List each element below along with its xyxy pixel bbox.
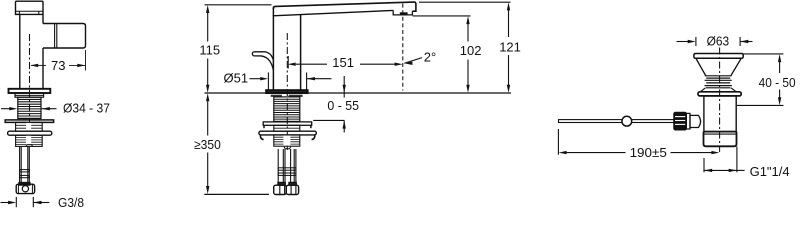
svg-text:≥350: ≥350: [194, 137, 221, 152]
funnel flare to collar: [700, 88, 705, 92]
svg-text:115: 115: [199, 42, 220, 57]
dimension 0 - 55: [343, 76, 345, 98]
mounting surface line: [205, 92, 267, 94]
drain collar: [698, 92, 741, 96]
svg-text:0 - 55: 0 - 55: [327, 98, 359, 113]
thread section between washers: [16, 122, 43, 131]
rod collar at body: [686, 113, 690, 129]
spout stub (side view, pointing toward viewer): [43, 24, 86, 49]
rod ball joint: [622, 116, 632, 126]
lever handle (front): [252, 52, 273, 71]
svg-text:G3/8: G3/8: [58, 195, 84, 208]
svg-text:121: 121: [499, 40, 521, 55]
centerline (front view): [286, 33, 288, 150]
faucet body (side view): [19, 14, 21, 89]
dimension O51: [267, 73, 269, 91]
dimension 102 with extension: [413, 15, 471, 17]
drain bottom nut G1 1/4: [704, 132, 737, 147]
handle knob (side view): [16, 1, 44, 14]
faucet body column (front): [272, 7, 274, 89]
aerator: [393, 10, 412, 15]
hose collars (front): [278, 182, 285, 185]
dimension >=350: [206, 93, 209, 101]
svg-text:2°: 2°: [424, 49, 436, 64]
svg-text:40 - 50: 40 - 50: [759, 75, 796, 90]
drain centerline: [719, 48, 721, 153]
hose bands (front): [278, 168, 296, 170]
middle thread section (front): [274, 125, 300, 131]
funnel cone sides: [696, 58, 706, 76]
svg-text:Ø63: Ø63: [707, 33, 730, 48]
dimension 40 - 50: [744, 53, 784, 55]
lower reference line for 350: [204, 193, 269, 195]
horseshoe washer (left view): [8, 131, 52, 135]
dimension 115 with top extension: [205, 4, 272, 6]
dimension O63: [695, 37, 697, 46]
shank end cap: [26, 145, 33, 147]
shank end cap (front): [284, 146, 291, 149]
base flange (front): [266, 90, 307, 93]
dimension 151: [287, 56, 289, 69]
gasket band under plate: [15, 93, 44, 97]
pop-up rod: [559, 120, 674, 123]
lower thread section (front): [274, 135, 300, 146]
cam housing: [690, 115, 701, 127]
svg-text:102: 102: [460, 43, 482, 58]
svg-text:151: 151: [332, 55, 354, 70]
svg-text:Ø51: Ø51: [224, 70, 249, 85]
horseshoe washer (front): [259, 131, 316, 135]
hose nuts (front): [274, 185, 287, 194]
supply hoses (front): [277, 149, 279, 182]
supply hose (left view): [19, 147, 21, 184]
spout beam (front): [273, 2, 416, 11]
svg-text:Ø34 - 37: Ø34 - 37: [63, 101, 110, 116]
lower thread section: [16, 135, 43, 146]
spout underside line: [273, 10, 394, 17]
funnel ring grooves: [705, 75, 732, 77]
dimension Ø34 - 37: [1, 108, 10, 110]
hose end collar: [19, 183, 30, 186]
drain body: [704, 96, 736, 132]
threaded shank (left view): [18, 97, 41, 118]
mounting washer (left view): [5, 120, 53, 123]
upper mounting washer (front): [263, 122, 312, 125]
dimension 190 +/-5: [557, 129, 559, 155]
hose crimp bands: [20, 170, 30, 172]
dimension 73: [85, 50, 87, 71]
label 2 degrees with leader: [404, 62, 412, 65]
drain funnel top rim: [694, 54, 743, 59]
rod knurled knob: [674, 112, 686, 129]
water stream dashed line: [402, 4, 404, 91]
svg-text:G1"1/4: G1"1/4: [750, 164, 790, 179]
svg-text:73: 73: [51, 58, 65, 73]
dimension 121 with extension: [419, 1, 511, 3]
svg-text:190±5: 190±5: [630, 145, 667, 160]
centerline (left view): [29, 34, 31, 126]
collar segments under flange: [271, 95, 282, 97]
base escutcheon plate (left view): [9, 89, 51, 93]
G3/8 nut (left view): [16, 184, 34, 193]
dimension G3/8: [15, 197, 17, 207]
dimension G1 1/4: [703, 158, 705, 172]
threaded shank (front): [274, 97, 300, 122]
